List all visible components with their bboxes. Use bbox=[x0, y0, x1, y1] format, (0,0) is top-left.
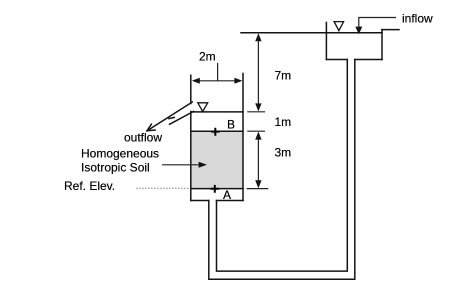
svg-text:outflow: outflow bbox=[124, 130, 162, 144]
svg-text:B: B bbox=[227, 117, 235, 131]
svg-text:Homogeneous: Homogeneous bbox=[81, 147, 159, 161]
svg-text:1m: 1m bbox=[275, 115, 292, 129]
svg-text:A: A bbox=[223, 188, 231, 202]
svg-text:3m: 3m bbox=[275, 146, 292, 160]
svg-text:inflow: inflow bbox=[402, 12, 433, 26]
svg-text:2m: 2m bbox=[199, 50, 216, 64]
svg-text:7m: 7m bbox=[275, 69, 292, 83]
svg-text:Ref. Elev.: Ref. Elev. bbox=[64, 179, 115, 193]
svg-text:Isotropic Soil: Isotropic Soil bbox=[81, 160, 150, 174]
